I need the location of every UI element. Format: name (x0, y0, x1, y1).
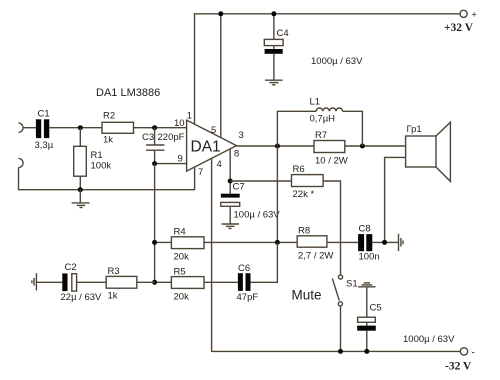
speaker Gp1 (406, 122, 451, 181)
resistor R6 (292, 164, 324, 200)
node junction dot R4 left (152, 240, 157, 245)
svg-text:100n: 100n (359, 252, 380, 263)
node junction dot S1 rail (338, 349, 343, 354)
capacitor C2 (61, 262, 103, 303)
capacitor C4 (264, 28, 288, 54)
svg-text:C3: C3 (142, 132, 154, 143)
svg-text:L1: L1 (310, 97, 321, 108)
svg-text:+: + (472, 10, 477, 20)
svg-text:C5: C5 (370, 303, 382, 314)
input jack 1 (19, 123, 24, 132)
wire R6 to S1 (323, 181, 340, 275)
node junction dot R4 right output (275, 240, 280, 245)
terminal +32V circle (460, 10, 467, 17)
node junction dot L1 right (360, 144, 365, 149)
wire pin4 to negative rail (212, 158, 460, 351)
svg-text:3: 3 (239, 130, 244, 141)
svg-text:Гр1: Гр1 (407, 124, 422, 135)
resistor R2 (102, 111, 134, 146)
resistor R8 (297, 226, 333, 262)
svg-text:20k: 20k (174, 292, 190, 303)
svg-text:S1: S1 (346, 279, 358, 290)
wire ground to C2 (36, 281, 62, 283)
svg-text:C2: C2 (65, 262, 77, 273)
svg-text:5: 5 (211, 125, 216, 136)
wire top rail with pin1 drop (195, 14, 461, 124)
inductor L1 (277, 97, 362, 147)
resistor R1 (74, 128, 112, 190)
wire R2 to pin10 (134, 127, 187, 129)
wire R3 to R5 node (137, 281, 155, 283)
capacitor C7 (221, 182, 281, 221)
svg-text:47pF: 47pF (237, 292, 259, 303)
resistor R5 (171, 267, 204, 303)
svg-text:8: 8 (234, 149, 239, 160)
wire R5 row (155, 242, 278, 282)
resistor R4 (171, 227, 204, 263)
ground above C5 inverted (358, 283, 375, 287)
svg-text:3,3µ: 3,3µ (35, 140, 54, 151)
wire pin9 down to R4 R5 (154, 164, 156, 283)
svg-text:R2: R2 (103, 111, 115, 122)
capacitor C1 (35, 109, 54, 152)
svg-text:2,7 / 2W: 2,7 / 2W (298, 251, 333, 262)
wire C1 to node A (49, 127, 102, 129)
svg-text:R4: R4 (174, 227, 186, 238)
wire output pin3 (237, 145, 406, 147)
svg-text:C6: C6 (238, 263, 250, 274)
svg-text:0,7µH: 0,7µH (310, 114, 336, 125)
node junction dot rail pin5 (218, 11, 223, 16)
svg-text:R5: R5 (174, 267, 186, 278)
wire output down to R4 R8 node (276, 146, 278, 242)
ground right of C8 (399, 234, 404, 251)
svg-text:R6: R6 (293, 164, 305, 175)
svg-text:4: 4 (217, 159, 222, 170)
svg-text:C4: C4 (277, 28, 289, 39)
ground input 2 left (32, 273, 37, 290)
ground under C7 (222, 224, 240, 229)
wire C2 to R3 (77, 281, 107, 283)
wire pin8 node to R6 (230, 180, 291, 182)
input jack 2 (19, 158, 24, 167)
svg-text:C1: C1 (38, 109, 50, 120)
svg-text:R7: R7 (315, 130, 327, 141)
node junction dot R2 C3 (152, 125, 157, 130)
svg-text:22µ / 63V: 22µ / 63V (61, 292, 103, 303)
resistor R7 (314, 130, 348, 167)
node junction dot ground (78, 187, 83, 192)
svg-text:1k: 1k (108, 291, 118, 302)
svg-text:1000µ / 63V: 1000µ / 63V (311, 56, 363, 67)
switch S1 (332, 275, 357, 352)
capacitor C3 (142, 132, 185, 150)
node junction dot rail C4 (271, 11, 276, 16)
wire C3 node to pin9 (155, 128, 187, 164)
node junction dot input (78, 125, 83, 130)
svg-text:C8: C8 (359, 224, 371, 235)
op-amp U1 DA1 triangle (187, 120, 237, 171)
svg-text:220pF: 220pF (158, 132, 185, 143)
node junction dot C5 rail (364, 349, 369, 354)
ground under input node (72, 190, 90, 208)
svg-text:7: 7 (198, 167, 203, 178)
svg-text:+32 V: +32 V (444, 22, 474, 34)
capacitor C8 (358, 224, 380, 263)
capacitor C6 (237, 263, 259, 303)
svg-text:DA1: DA1 (191, 139, 221, 156)
terminal -32V circle (460, 348, 467, 355)
svg-text:10 / 2W: 10 / 2W (315, 156, 348, 167)
svg-text:-: - (472, 348, 475, 359)
wire pin5 to rail (220, 14, 222, 138)
wire speaker return (385, 157, 406, 242)
ground under C4 (265, 80, 283, 85)
svg-text:R3: R3 (108, 266, 120, 277)
node junction dot R5 left (152, 280, 157, 285)
wire pin8 to C7 node (229, 149, 231, 224)
svg-text:1: 1 (187, 111, 192, 122)
wire R4 row (155, 241, 298, 243)
svg-text:100k: 100k (91, 161, 112, 172)
svg-text:1000µ / 63V: 1000µ / 63V (403, 334, 455, 345)
svg-text:22k *: 22k * (293, 189, 315, 200)
node junction dot pin8 C7 (228, 179, 233, 184)
svg-text:9: 9 (178, 154, 183, 165)
svg-text:10: 10 (174, 118, 185, 129)
svg-text:Mute: Mute (292, 288, 322, 303)
node junction dot C3 pin9 (152, 161, 157, 166)
capacitor C5 (357, 287, 381, 352)
svg-text:20k: 20k (174, 252, 190, 263)
svg-text:R8: R8 (298, 226, 310, 237)
wire C4 from rail (273, 14, 275, 80)
svg-text:C7: C7 (233, 182, 245, 193)
wire input1 to C1 (23, 127, 36, 129)
wire C8 to ground (372, 241, 398, 243)
svg-text:DA1 LM3886: DA1 LM3886 (96, 87, 160, 99)
svg-text:1k: 1k (103, 135, 113, 146)
resistor R3 (106, 266, 137, 302)
node junction dot output L1 (275, 144, 280, 149)
wire R8 to C8 (327, 241, 358, 243)
svg-text:R1: R1 (91, 150, 103, 161)
wire input2 to ground node (19, 167, 195, 189)
svg-text:-32 V: -32 V (445, 361, 472, 373)
svg-text:100µ / 63V: 100µ / 63V (234, 210, 281, 221)
node junction dot C8 speaker (382, 240, 387, 245)
